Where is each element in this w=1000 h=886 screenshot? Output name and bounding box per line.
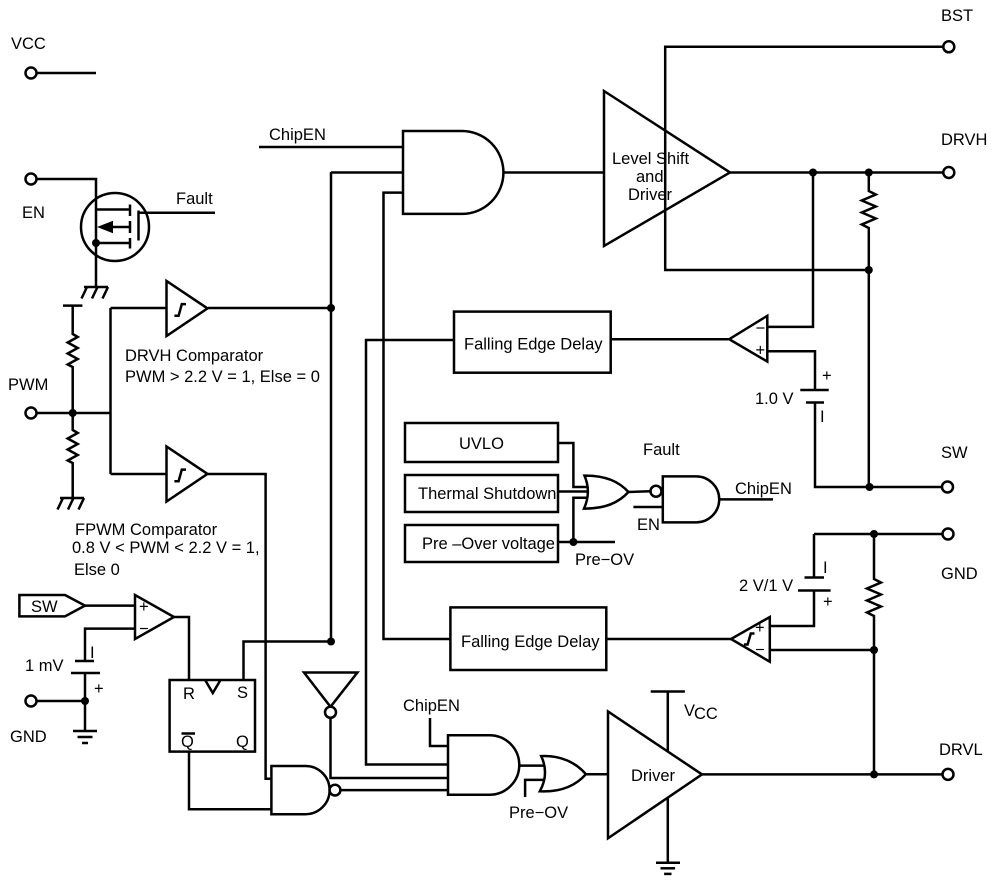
gate AND U8 bottom <box>448 735 519 795</box>
terminal DRVL <box>939 741 983 780</box>
wire FPWM comparator output <box>208 474 271 779</box>
wire AND third input <box>384 193 451 639</box>
ground (earth) below B1 <box>73 701 97 743</box>
svg-text:and: and <box>636 168 664 186</box>
svg-text:Fault: Fault <box>176 190 213 208</box>
svg-text:Level Shift: Level Shift <box>612 150 689 168</box>
gate AND U7 with inverted input <box>651 476 720 522</box>
wire DRVL output line <box>702 773 943 776</box>
svg-text:2 V/1 V: 2 V/1 V <box>739 577 793 595</box>
svg-text:1.0 V: 1.0 V <box>755 390 794 408</box>
wire ChipEN bottom <box>430 718 448 746</box>
wire NAND output to AND <box>340 789 448 792</box>
svg-text:PWM: PWM <box>8 376 48 394</box>
svg-text:Pre−OV: Pre−OV <box>575 551 634 569</box>
terminal EN <box>22 174 45 223</box>
svg-text:ChipEN: ChipEN <box>269 126 326 144</box>
svg-text:S: S <box>237 684 248 702</box>
latch SR <box>170 680 255 752</box>
box UVLO <box>405 423 558 462</box>
wire inverter output to AND <box>331 718 449 778</box>
node junction Pre-OV <box>569 538 577 546</box>
node junction DRVH out <box>327 304 335 312</box>
wire Thermal to OR <box>558 490 592 493</box>
svg-text:0.8 V < PWM < 2.2 V = 1,: 0.8 V < PWM < 2.2 V = 1, <box>72 539 260 557</box>
wire SW comparator output to R <box>174 617 189 680</box>
resistor R2 <box>68 413 78 498</box>
svg-text:DRVL: DRVL <box>939 741 983 759</box>
svg-text:BST: BST <box>941 7 973 25</box>
svg-text:UVLO: UVLO <box>459 435 504 453</box>
terminal DRVH <box>941 131 987 178</box>
wire DRVH output line <box>730 171 943 174</box>
svg-text:SW: SW <box>941 444 968 462</box>
wire PWM to comparator inputs <box>109 308 112 474</box>
wire SW to comparator <box>85 604 135 607</box>
wire FED upper input from comparator <box>611 338 729 341</box>
svg-text:+: + <box>139 598 149 616</box>
node junction GND <box>870 530 878 538</box>
wire EN to MOSFET <box>37 179 97 287</box>
wire EN input stub <box>633 506 662 509</box>
wire battery to SW node <box>815 402 942 488</box>
buffer Level Shift and Driver <box>604 91 730 246</box>
svg-text:I: I <box>820 408 825 426</box>
op-amp SW comparator <box>135 595 174 639</box>
terminal BST <box>941 7 973 52</box>
box Pre-Over voltage <box>405 525 558 562</box>
svg-text:Falling Edge Delay: Falling Edge Delay <box>461 633 600 651</box>
terminal GND right <box>941 529 978 584</box>
node GND junction <box>81 697 89 705</box>
svg-text:R: R <box>183 685 195 703</box>
svg-text:+: + <box>756 342 766 360</box>
ground (earth) below Driver <box>656 798 680 874</box>
rail bar above R1 <box>63 304 82 307</box>
svg-text:GND: GND <box>941 565 978 583</box>
wire DRVH comparator input <box>111 307 167 310</box>
battery B2 1.0V <box>800 367 831 426</box>
box Falling Edge Delay lower <box>450 607 606 670</box>
wire ChipEN output <box>719 498 773 501</box>
wire FED lower input from comparator <box>606 638 731 641</box>
wire ChipEN top <box>259 146 403 149</box>
node junction minus <box>870 646 878 654</box>
svg-text:DRVH: DRVH <box>941 131 987 149</box>
wire fb to comparator minus <box>767 173 813 327</box>
ground (slanted) below Q1 <box>82 287 109 299</box>
wire Pre-OV to OR bottom <box>525 780 545 797</box>
svg-text:CC: CC <box>694 705 718 723</box>
svg-text:GND: GND <box>10 728 47 746</box>
power VCC bar <box>651 692 685 752</box>
wire UVLO to OR <box>558 443 590 487</box>
wire OR output <box>586 773 609 776</box>
transistor Q1 <box>81 193 149 261</box>
wire AND output to level shift <box>504 171 605 174</box>
wire VCC stub <box>37 72 97 75</box>
svg-text:Fault: Fault <box>643 441 680 459</box>
svg-text:I: I <box>823 559 828 577</box>
svg-text:+: + <box>755 619 765 637</box>
wire SW comparator minus input <box>85 629 135 661</box>
battery B3 2V/1V <box>770 534 833 626</box>
resistor R1 <box>68 306 78 413</box>
svg-text:Else 0: Else 0 <box>74 561 120 579</box>
wire GND stub <box>37 700 86 703</box>
svg-text:+: + <box>822 367 832 385</box>
op-amp FPWM comparator <box>167 447 208 502</box>
svg-text:−: − <box>755 641 765 659</box>
terminal VCC <box>11 35 46 79</box>
inverter U5 <box>304 673 357 718</box>
svg-text:1 mV: 1 mV <box>25 657 64 675</box>
gate OR U9 <box>540 756 586 791</box>
svg-text:EN: EN <box>22 204 45 222</box>
svg-text:VCC: VCC <box>11 35 46 53</box>
gate AND U2 top <box>403 131 503 214</box>
node junction DRVH-res <box>865 169 873 177</box>
wire DRVH comparator output <box>208 307 331 310</box>
svg-text:Q: Q <box>181 733 194 751</box>
tag SW <box>19 595 85 616</box>
wire Fault stub <box>139 212 216 215</box>
label VCC subscript <box>684 702 718 723</box>
node junction DRVL <box>870 770 878 778</box>
wire comparator plus to battery <box>767 351 815 390</box>
svg-text:FPWM Comparator: FPWM Comparator <box>75 521 218 539</box>
wire Pre-OV to OR <box>573 498 590 542</box>
svg-text:Pre –Over voltage: Pre –Over voltage <box>422 535 555 553</box>
box Thermal Shutdown <box>405 475 558 512</box>
wire FPWM comparator input <box>111 473 167 476</box>
wire FED upper output to AND bottom <box>366 340 454 765</box>
node junction S net <box>327 638 335 646</box>
buffer Driver <box>608 712 702 839</box>
wire BST net <box>665 47 943 270</box>
wire AND U8 output to OR <box>519 764 548 767</box>
node junction DRVH-fb <box>809 169 817 177</box>
op-amp DRVH comparator <box>167 281 208 336</box>
svg-text:SW: SW <box>31 598 58 616</box>
node junction SW <box>866 483 874 491</box>
gate OR fault <box>584 476 629 509</box>
svg-text:PWM > 2.2 V = 1, Else = 0: PWM > 2.2 V = 1, Else = 0 <box>125 368 320 386</box>
terminal PWM <box>8 376 48 419</box>
svg-text:Q: Q <box>236 733 249 751</box>
wire Qbar output <box>189 752 271 810</box>
wire Pre-OV stub <box>558 541 615 544</box>
svg-text:I: I <box>90 644 95 662</box>
svg-text:−: − <box>139 620 149 638</box>
svg-text:Falling Edge Delay: Falling Edge Delay <box>464 336 603 354</box>
wire vertical DRVH net <box>330 172 333 642</box>
node PWM junction <box>69 409 77 417</box>
terminal SW <box>941 444 968 493</box>
svg-text:−: − <box>756 320 766 338</box>
terminal GND left <box>10 696 47 747</box>
wire AND input 2 <box>331 171 403 174</box>
resistor R3 <box>862 173 876 488</box>
wire PWM to divider <box>37 412 111 415</box>
ground (slanted) below R2 <box>58 498 85 510</box>
svg-text:+: + <box>94 680 104 698</box>
svg-text:+: + <box>823 593 833 611</box>
svg-text:Driver: Driver <box>631 767 676 785</box>
gate NAND U6 <box>271 766 340 814</box>
box Falling Edge Delay upper <box>454 312 611 373</box>
battery B1 1mV <box>71 644 104 701</box>
op-amp U3 high-side comparator <box>729 316 767 362</box>
svg-text:ChipEN: ChipEN <box>735 480 792 498</box>
op-amp U4 low-side comparator <box>731 617 770 662</box>
wire GND net right <box>814 533 943 536</box>
svg-text:Thermal Shutdown: Thermal Shutdown <box>418 485 557 503</box>
resistor R4 <box>867 534 881 774</box>
svg-text:EN: EN <box>637 516 660 534</box>
wire comparator minus to DRVL net <box>770 649 874 652</box>
wire OR to bubble <box>629 490 651 493</box>
svg-text:ChipEN: ChipEN <box>403 697 460 715</box>
svg-text:Pre−OV: Pre−OV <box>509 804 568 822</box>
wire S input <box>244 642 332 681</box>
svg-text:DRVH Comparator: DRVH Comparator <box>125 347 264 365</box>
node junction BST-SW <box>865 266 873 274</box>
